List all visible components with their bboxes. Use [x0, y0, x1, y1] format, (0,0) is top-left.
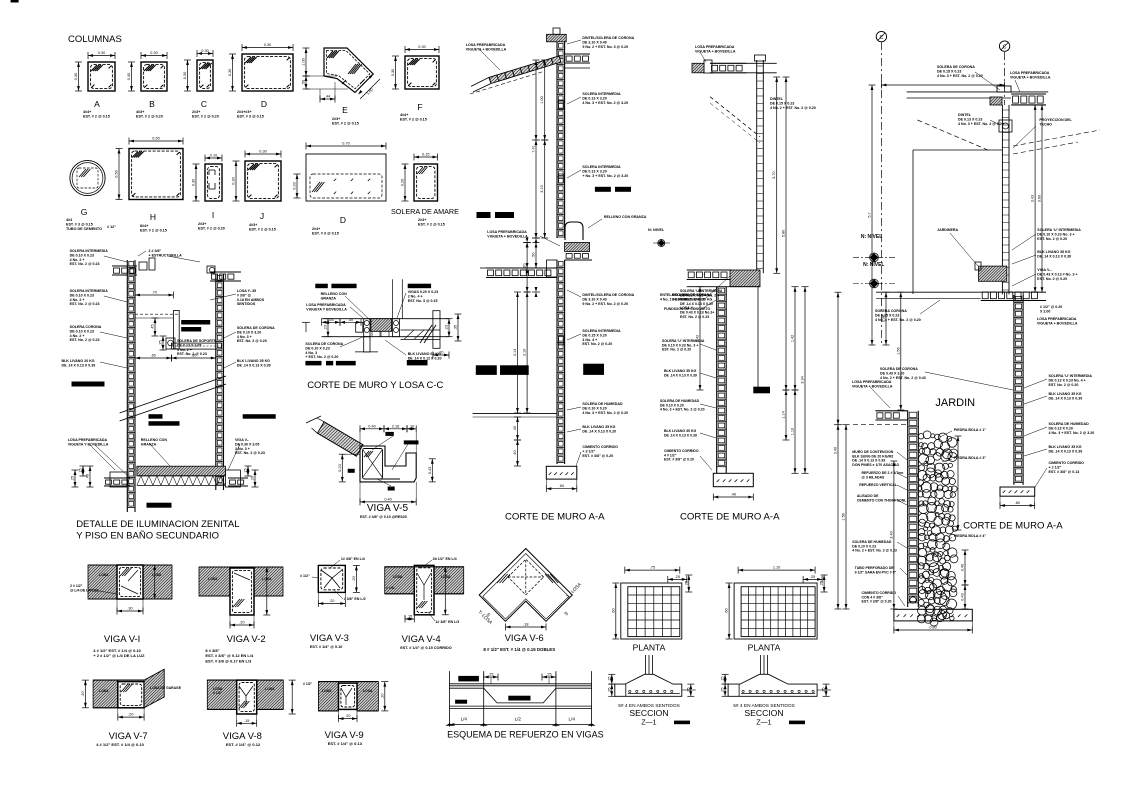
- svg-text:# 3/8" @: # 3/8" @: [237, 293, 252, 297]
- svg-text:D: D: [261, 99, 267, 109]
- wall3 dintel detail: [999, 120, 1012, 132]
- wall3 proyeccion dashed lines: [1013, 130, 1100, 146]
- svg-text:PIEDRA BOLA # 3": PIEDRA BOLA # 3": [954, 456, 986, 460]
- svg-text:JARDINERA: JARDINERA: [937, 228, 958, 232]
- svg-text:EST. No. 2 @ 0.20: EST. No. 2 @ 0.20: [582, 342, 612, 346]
- svg-text:DE 0.13 X 3.20: DE 0.13 X 3.20: [582, 169, 606, 173]
- wall1 mid floor bovedilla: [565, 259, 592, 261]
- svg-text:.25: .25: [71, 476, 75, 481]
- svg-text:+ No. 3 + EST. No. 2 @ 3.20: + No. 3 + EST. No. 2 @ 3.20: [582, 174, 628, 178]
- svg-text:DE 0.15 X 0.23: DE 0.15 X 0.23: [770, 101, 794, 105]
- detalle iluminacion right wall top cap: [210, 271, 241, 273]
- svg-text:DE .14 X 0.13 X 0.39: DE .14 X 0.13 X 0.39: [237, 363, 271, 367]
- wall3 jardin floor bovedilla: [875, 410, 908, 412]
- wall3 nivel datum 2: [870, 279, 879, 288]
- svg-text:# 1/2": # 1/2": [213, 691, 223, 695]
- svg-text:0.30: 0.30: [127, 73, 131, 80]
- detalle iluminacion inner beam marks: [166, 338, 175, 349]
- svg-text:.15: .15: [407, 615, 412, 619]
- wall3 open rect outline: [913, 149, 1002, 151]
- svg-text:.20: .20: [352, 576, 356, 581]
- svg-text:DINTEL: DINTEL: [958, 113, 972, 117]
- footing escala bar: [674, 721, 690, 725]
- svg-text:DE 3.10 X 0.43: DE 3.10 X 0.43: [582, 297, 606, 301]
- wall3 right footing dim: [1000, 505, 1035, 507]
- footing seccion rebar dots: [629, 690, 631, 692]
- svg-text:PLANTA: PLANTA: [633, 643, 666, 653]
- svg-text:EST. No. 2 @ 0.23: EST. No. 2 @ 0.23: [70, 302, 100, 306]
- svg-text:.10: .10: [409, 424, 414, 428]
- viga v-6 lower edge dims: [479, 595, 505, 621]
- svg-text:EST. # 3/8" @ 0.20: EST. # 3/8" @ 0.20: [664, 458, 694, 462]
- column C left dimension: [187, 60, 189, 91]
- svg-text:0.40: 0.40: [961, 564, 965, 571]
- svg-text:LOSA PREFABRICADA: LOSA PREFABRICADA: [695, 45, 735, 49]
- svg-text:RELLENO CON GRANZA: RELLENO CON GRANZA: [604, 215, 647, 219]
- svg-text:4#3+: 4#3+: [249, 223, 257, 227]
- column A left dimension: [78, 62, 80, 91]
- wall2 upper thin wall: [756, 60, 758, 273]
- svg-text:8#4+: 8#4+: [140, 224, 148, 228]
- wall3 mid slab bovedilla: [981, 300, 1046, 302]
- svg-text:LOSA: LOSA: [208, 577, 218, 581]
- svg-text:.40: .40: [513, 426, 517, 431]
- svg-text:0.30: 0.30: [183, 72, 187, 79]
- svg-text:0.30: 0.30: [98, 51, 105, 55]
- svg-text:EST. # 2 @ 0.15: EST. # 2 @ 0.15: [140, 229, 167, 233]
- svg-text:3.60: 3.60: [1038, 195, 1042, 202]
- svg-text:1.00: 1.00: [540, 96, 544, 103]
- svg-text:EST. No. 2 @ 0.23: EST. No. 2 @ 0.23: [70, 338, 100, 342]
- svg-text:B: B: [149, 99, 155, 109]
- svg-text:DE .14 X 0.12 X 0.20: DE .14 X 0.12 X 0.20: [408, 356, 442, 360]
- svg-text:VIGUETA + BOVEDILLA: VIGUETA + BOVEDILLA: [466, 47, 507, 51]
- svg-text:2#4+#3+: 2#4+#3+: [237, 110, 252, 114]
- svg-text:1.10: 1.10: [791, 428, 795, 435]
- wall3 datum circle C right: [999, 41, 1009, 51]
- wall2 left dim: [699, 287, 701, 390]
- svg-text:3.34: 3.34: [801, 376, 805, 383]
- svg-text:SOLERA INTERMEDIA: SOLERA INTERMEDIA: [70, 249, 109, 253]
- svg-text:VIGA V-8: VIGA V-8: [223, 731, 262, 742]
- wall3 top slab: [907, 91, 1049, 93]
- column D section: [242, 54, 293, 91]
- svg-text:.30: .30: [127, 607, 132, 611]
- wall1 black bars lower: [476, 365, 497, 375]
- svg-text:VIGUETA + BOVEDILLA: VIGUETA + BOVEDILLA: [852, 384, 893, 388]
- svg-text:DE .14 X 0.13 X 0.39: DE .14 X 0.13 X 0.39: [1037, 254, 1071, 258]
- viga v-6 diamond section: [479, 549, 572, 622]
- svg-text:1.42: 1.42: [791, 335, 795, 342]
- svg-text:.45: .45: [151, 324, 155, 329]
- svg-text:LOSA PREFABRICADA: LOSA PREFABRICADA: [466, 43, 506, 47]
- svg-text:0.20: 0.20: [293, 182, 297, 189]
- column D wide solera section: [306, 154, 386, 201]
- corte losa c-c slab band: [322, 318, 450, 320]
- wall2 top cap: [755, 55, 766, 61]
- wall3 top wall cap: [997, 86, 1011, 92]
- wall2 footing: [713, 473, 753, 486]
- svg-text:DE 0.10 X 3.20: DE 0.10 X 3.20: [237, 330, 261, 334]
- svg-text:PIEDRA BOLA # 4": PIEDRA BOLA # 4": [954, 534, 986, 538]
- svg-text:4 No. 2 + EST. No. 2 @ 0.23: 4 No. 2 + EST. No. 2 @ 0.23: [852, 549, 897, 553]
- svg-text:BLK LIVANO 60 KG: BLK LIVANO 60 KG: [408, 352, 441, 356]
- footing planta left dim: [728, 583, 730, 639]
- svg-text:N: NIVEL: N: NIVEL: [648, 228, 665, 232]
- svg-text:DE .14 X 0.13 X 0.39: DE .14 X 0.13 X 0.39: [664, 373, 697, 377]
- svg-text:CORTE DE MURO A-A: CORTE DE MURO A-A: [505, 512, 605, 523]
- svg-text:EST. # 3/8" @ 0.10 @RES25: EST. # 3/8" @ 0.10 @RES25: [360, 515, 407, 519]
- svg-text:1# 3/8" EN L/4: 1# 3/8" EN L/4: [341, 557, 365, 561]
- svg-text:.60: .60: [611, 608, 615, 613]
- viga v-9 dims: [339, 718, 358, 720]
- svg-text:4 No. 2 +: 4 No. 2 +: [70, 298, 85, 302]
- svg-text:GRANZA: GRANZA: [141, 442, 157, 446]
- svg-text:EST. No. 2 @ 0.20: EST. No. 2 @ 0.20: [662, 348, 691, 352]
- svg-text:# 12": # 12": [107, 225, 116, 229]
- wall3 mid slab lines: [876, 291, 1046, 293]
- wall3 left retaining wall: [907, 411, 909, 607]
- wall3 dim chain left: [837, 292, 839, 609]
- footing seccion right dim: [690, 684, 692, 696]
- wall1 top cap hatch: [547, 34, 567, 42]
- corte losa c-c left small beam: [356, 322, 363, 332]
- svg-text:2 No. 4 +: 2 No. 4 +: [408, 294, 423, 298]
- svg-text:EST. # 1/4" @ 0.15 CORRIDO: EST. # 1/4" @ 0.15 CORRIDO: [400, 646, 452, 650]
- svg-text:SOLERA DE CORONA: SOLERA DE CORONA: [880, 367, 918, 371]
- svg-text:DE 0.10 X 0.23: DE 0.10 X 0.23: [70, 329, 94, 333]
- svg-text:VIGA V-.: VIGA V-.: [235, 438, 249, 442]
- column A section: [88, 62, 115, 91]
- corte losa c-c right post: [393, 319, 400, 337]
- svg-text:LOSA Y-.35: LOSA Y-.35: [237, 289, 256, 293]
- svg-text:N: NIVEL: N: NIVEL: [863, 262, 884, 268]
- footing seccion left dims: [611, 674, 613, 684]
- svg-text:4 No. 2 + EST. No. 2 @ 0.20: 4 No. 2 + EST. No. 2 @ 0.20: [660, 297, 705, 301]
- svg-text:SOLERA 'U' INTERMEDIA: SOLERA 'U' INTERMEDIA: [1049, 374, 1093, 378]
- svg-text:.15: .15: [721, 677, 725, 682]
- detalle iluminacion diagonal shaft line A: [120, 376, 226, 413]
- svg-text:.75: .75: [650, 566, 655, 570]
- svg-text:4 No. 4 +: 4 No. 4 +: [582, 338, 597, 342]
- svg-text:4 # 1/2" EST. # 1/4 @ 0.10: 4 # 1/2" EST. # 1/4 @ 0.10: [96, 742, 144, 747]
- detalle iluminacion diagonal shaft line B: [120, 384, 226, 421]
- column A top dimension: [88, 55, 115, 57]
- svg-text:DE 0.10 X 0.23: DE 0.10 X 0.23: [70, 253, 94, 257]
- svg-text:DE 0.15 X 0.20: DE 0.15 X 0.20: [582, 333, 606, 337]
- svg-text:L/2: L/2: [515, 717, 522, 722]
- black bar note skylight: [181, 320, 210, 325]
- svg-text:BLK LIVANO 35 KG: BLK LIVANO 35 KG: [582, 425, 615, 429]
- svg-text:LOSA: LOSA: [441, 575, 451, 579]
- svg-text:LOSA: LOSA: [99, 573, 109, 577]
- svg-text:G: G: [81, 207, 88, 217]
- black bar note bottom: [147, 503, 172, 508]
- column H dimensions: [129, 140, 183, 142]
- viga v-2 right dim: [266, 567, 268, 615]
- svg-text:COLUMNAS: COLUMNAS: [68, 34, 122, 45]
- svg-text:.40: .40: [86, 474, 90, 479]
- svg-text:SECCION: SECCION: [629, 708, 668, 718]
- wall3 right footing: [1000, 487, 1035, 496]
- svg-text:.20: .20: [251, 476, 255, 481]
- svg-text:1# 3/8" EN L/3: 1# 3/8" EN L/3: [435, 620, 459, 624]
- svg-text:SOLERA INTERMEDIA: SOLERA INTERMEDIA: [582, 92, 621, 96]
- svg-text:PROYECCION DEL: PROYECCION DEL: [1039, 118, 1072, 122]
- viga v-5 black bars: [385, 432, 393, 436]
- svg-text:SOLERA INTERMEDIA: SOLERA INTERMEDIA: [582, 165, 621, 169]
- svg-text:SOLERA 'U' INTERMEDIA: SOLERA 'U' INTERMEDIA: [1037, 228, 1081, 232]
- viga v-5 bottom dim: [360, 501, 416, 503]
- svg-text:VIGA V-5: VIGA V-5: [367, 503, 409, 514]
- svg-text:5.7: 5.7: [868, 212, 872, 217]
- svg-text:2#4+: 2#4+: [312, 227, 320, 231]
- svg-text:DE 0.10 X 0.20: DE 0.10 X 0.20: [582, 406, 606, 410]
- svg-text:DE 0.13 X 3.05: DE 0.13 X 3.05: [177, 343, 201, 347]
- svg-text:DE 0.13 X 0.23: DE 0.13 X 0.23: [958, 117, 982, 121]
- svg-text:VIGUETA Y BOVEDILLA: VIGUETA Y BOVEDILLA: [68, 442, 109, 446]
- corte losa c-c right end post: [433, 311, 440, 349]
- viga v-8 slab and section: [207, 680, 236, 709]
- svg-text:4 No. 3: 4 No. 3: [305, 351, 317, 355]
- wall3 leader lines left: [897, 452, 907, 460]
- svg-text:.20: .20: [345, 714, 350, 718]
- svg-text:# 1/2": # 1/2": [300, 574, 310, 578]
- svg-text:EST. # 3/8" @ 0.20: EST. # 3/8" @ 0.20: [862, 600, 892, 604]
- viga v-5 right dim: [431, 459, 433, 482]
- column C top dimension: [197, 53, 213, 55]
- svg-text:Z—1: Z—1: [756, 720, 771, 727]
- esquema bottom bars: [450, 705, 592, 707]
- svg-text:4#4+: 4#4+: [400, 113, 408, 117]
- svg-text:DE 0.15 X 0.23: DE 0.15 X 0.23: [937, 69, 961, 73]
- wall3 bottom footing dim: [894, 629, 972, 631]
- column B section: [141, 62, 167, 91]
- svg-text:9 No. 2 + EST. No. 3 @ 0.20: 9 No. 2 + EST. No. 3 @ 0.20: [582, 45, 628, 49]
- svg-text:C: C: [880, 35, 884, 41]
- viga v-5 top dims: [360, 428, 384, 430]
- svg-text:4#4+: 4#4+: [83, 110, 91, 114]
- column B left dimension: [131, 62, 133, 91]
- svg-text:H: H: [150, 212, 156, 222]
- wall1 lower block wall: [556, 260, 558, 464]
- detalle iluminacion left wall top cap: [112, 265, 137, 267]
- column J dimensions: [245, 153, 281, 155]
- viga v-3 section: [318, 565, 345, 592]
- svg-text:I: I: [212, 210, 214, 220]
- detalle iluminacion skylight frame: [174, 310, 180, 348]
- svg-text:.25: .25: [675, 575, 680, 579]
- svg-text:EST. No. 2 @ 0.20: EST. No. 2 @ 0.20: [1049, 383, 1079, 387]
- corte losa c-c black bars bottom: [305, 361, 321, 366]
- svg-text:CEMENTO CON THOMPSONL: CEMENTO CON THOMPSONL: [857, 498, 907, 502]
- svg-text:DE .14 X 0.13 X 0.39: DE .14 X 0.13 X 0.39: [62, 363, 96, 367]
- svg-text:SOLERA INTERMEDIA: SOLERA INTERMEDIA: [70, 289, 109, 293]
- solera de amarre dimensions: [414, 156, 438, 158]
- svg-text:VIGAS 0.20 X 0.23: VIGAS 0.20 X 0.23: [408, 290, 439, 294]
- svg-text:# 3/8" EN L/2: # 3/8" EN L/2: [344, 597, 366, 601]
- wall2 footing dim: [713, 496, 753, 498]
- svg-text:BLK LIVANO 35 KG: BLK LIVANO 35 KG: [237, 359, 270, 363]
- svg-text:EST. # 2 @ 0.15: EST. # 2 @ 0.15: [400, 118, 427, 122]
- svg-text:TECHO: TECHO: [1039, 122, 1052, 126]
- svg-text:0.30: 0.30: [192, 179, 196, 186]
- footing escala bar: [789, 721, 805, 725]
- svg-text:DE .14 X 0.13 X 0.39: DE .14 X 0.13 X 0.39: [1049, 396, 1083, 400]
- svg-text:4 No. 2 +: 4 No. 2 +: [177, 348, 192, 352]
- svg-text:0.30: 0.30: [228, 69, 232, 76]
- svg-text:DE 0.10 X 0.23 No. 3 +: DE 0.10 X 0.23 No. 3 +: [1037, 232, 1074, 236]
- esquema bottom dim line: [450, 724, 592, 726]
- column I dimensions: [205, 157, 222, 159]
- svg-text:ESQUEMA DE REFUERZO EN VIGAS: ESQUEMA DE REFUERZO EN VIGAS: [447, 730, 604, 740]
- svg-text:EST. # 1/4" @ 0.13: EST. # 1/4" @ 0.13: [328, 741, 363, 746]
- svg-text:.25: .25: [159, 340, 163, 345]
- svg-text:DON PINES e 1/70 ASACIAO: DON PINES e 1/70 ASACIAO: [852, 463, 899, 467]
- wall3 datum line right: [1004, 52, 1006, 105]
- svg-text:LOSA DE GARAGE: LOSA DE GARAGE: [150, 686, 182, 690]
- wall2 dashed diagonal: [710, 97, 760, 137]
- svg-text:1.14: 1.14: [782, 411, 786, 418]
- viga v-5 inner rebar box: [363, 449, 383, 480]
- svg-text:0.43: 0.43: [428, 467, 432, 474]
- svg-text:Z—1: Z—1: [641, 720, 656, 727]
- wall3 jardinera hatch box: [979, 266, 1007, 281]
- svg-text:EST. # 2 @ 0.15: EST. # 2 @ 0.15: [249, 228, 276, 232]
- svg-text:DE 0.15 X 0.23: DE 0.15 X 0.23: [875, 313, 899, 317]
- svg-text:2#3+: 2#3+: [332, 117, 340, 121]
- svg-text:.60: .60: [725, 608, 729, 613]
- svg-text:0.18 EN AMBOS: 0.18 EN AMBOS: [237, 298, 265, 302]
- svg-text:.25: .25: [721, 688, 725, 693]
- wall3 pvc pipe: [910, 597, 916, 603]
- viga v-1 bottom dim: [117, 610, 143, 612]
- viga v-8 dims: [237, 722, 257, 724]
- svg-text:0.43: 0.43: [961, 593, 965, 600]
- svg-text:9 No. 2 + EST. No. 2 @ 0.20: 9 No. 2 + EST. No. 2 @ 0.20: [582, 302, 628, 306]
- svg-text:Y PISO EN BAÑO SECUNDARIO: Y PISO EN BAÑO SECUNDARIO: [76, 531, 219, 542]
- svg-text:9 1/2" SARA EN PVC # 5": 9 1/2" SARA EN PVC # 5": [855, 570, 897, 574]
- detalle iluminacion right wall: [215, 274, 217, 490]
- wall1 sloped roof band: [489, 56, 561, 84]
- svg-text:.20: .20: [239, 621, 244, 625]
- svg-text:.18: .18: [523, 623, 528, 627]
- svg-text:4 No. 3 + EST. No. 2 @ 3.20: 4 No. 3 + EST. No. 2 @ 3.20: [1049, 431, 1095, 435]
- svg-text:CIMIENTO CORRIDO: CIMIENTO CORRIDO: [582, 445, 618, 449]
- solera de amarre section: [414, 164, 438, 201]
- svg-text:0.15: 0.15: [422, 153, 429, 157]
- svg-text:LOSA PREFABRICADA: LOSA PREFABRICADA: [68, 438, 108, 442]
- svg-text:.20: .20: [329, 599, 334, 603]
- svg-text:LOSA PREFABRICADA: LOSA PREFABRICADA: [1010, 71, 1050, 75]
- svg-text:PIEDRA BOLA # 1": PIEDRA BOLA # 1": [954, 428, 986, 432]
- svg-text:C: C: [201, 99, 207, 109]
- svg-text:JARDIN: JARDIN: [935, 397, 975, 409]
- svg-text:0.50: 0.50: [115, 170, 119, 177]
- svg-text:SOLERA DE CORONA: SOLERA DE CORONA: [937, 65, 975, 69]
- svg-text:.15: .15: [244, 719, 249, 723]
- svg-text:.25: .25: [810, 575, 815, 579]
- svg-text:EST. No. 2 @ 0.23: EST. No. 2 @ 0.23: [237, 339, 267, 343]
- svg-text:DE 0.13 X 0.20: DE 0.13 X 0.20: [1049, 426, 1073, 430]
- svg-text:0.40: 0.40: [384, 497, 391, 501]
- column F section: [405, 56, 439, 89]
- viga v-7 slab and section: [93, 680, 118, 708]
- svg-text:E: E: [342, 105, 348, 115]
- svg-text:SOLERA DE AMARE: SOLERA DE AMARE: [391, 207, 459, 216]
- wall2 mid floor bovedilla: [687, 269, 730, 271]
- svg-text:EST. No. 2 @ 0.23: EST. No. 2 @ 0.23: [177, 352, 207, 356]
- svg-text:SECCION: SECCION: [744, 708, 783, 718]
- wall3 datum circle C left: [876, 31, 886, 41]
- footing planta top dim: [738, 569, 815, 571]
- svg-text:+ 3 1/2": + 3 1/2": [582, 449, 595, 453]
- column D top dimension: [242, 47, 293, 49]
- svg-text:4 No. 3 + EST. No. 2 @ 0.20: 4 No. 3 + EST. No. 2 @ 0.20: [582, 411, 628, 415]
- svg-text:EST. # 3 @ 0.15: EST. # 3 @ 0.15: [237, 115, 264, 119]
- wall1 relleno step profile: [565, 222, 583, 240]
- wall1 main block wall: [556, 42, 558, 238]
- wall3 boulder big stones bottom: [926, 554, 939, 567]
- column I section: [205, 164, 222, 201]
- wall3 upper wall: [1001, 105, 1003, 295]
- svg-text:SOLERA INTERMEDIA: SOLERA INTERMEDIA: [582, 329, 621, 333]
- svg-text:C: C: [1003, 45, 1007, 51]
- svg-text:DINTEL/SOLERA DE CORONA: DINTEL/SOLERA DE CORONA: [582, 36, 634, 40]
- detalle iluminacion floor left support: [110, 472, 127, 487]
- svg-text:.40: .40: [348, 318, 353, 322]
- footing planta corner dims: [668, 578, 687, 580]
- viga v-4 slab and section: [385, 567, 415, 594]
- svg-text:LOSA: LOSA: [99, 689, 109, 693]
- footing planta outer: [734, 583, 817, 639]
- svg-text:DE 0.13 X 0.23 No. 4 +: DE 0.13 X 0.23 No. 4 +: [1049, 378, 1086, 382]
- svg-text:EST. # 2 @ 0.20: EST. # 2 @ 0.20: [192, 115, 219, 119]
- column F top dimension: [405, 49, 439, 51]
- svg-text:4 No. 3 +: 4 No. 3 +: [237, 335, 252, 339]
- svg-text:VIGA V-6: VIGA V-6: [505, 633, 544, 644]
- svg-text:0.10: 0.10: [210, 154, 217, 158]
- svg-text:0.70: 0.70: [342, 142, 349, 146]
- svg-text:TUBO DE CEMENTO: TUBO DE CEMENTO: [66, 227, 102, 231]
- svg-text:1.56: 1.56: [842, 513, 846, 520]
- column C section: [197, 60, 213, 91]
- wall2 black bar: [753, 387, 770, 394]
- wall2 lower wall: [716, 287, 718, 474]
- wall2 top slab: [710, 62, 747, 64]
- footing planta outer: [621, 583, 682, 639]
- svg-text:.80: .80: [1015, 501, 1020, 505]
- svg-text:DE 0.10 X 0.23: DE 0.10 X 0.23: [70, 293, 94, 297]
- column G circular section: [70, 160, 105, 195]
- svg-text:BLK LIVANO 35 KG: BLK LIVANO 35 KG: [1049, 392, 1082, 396]
- svg-text:4 No. 3 + EST. No. 2 @ 0.20: 4 No. 3 + EST. No. 2 @ 0.20: [958, 122, 1004, 126]
- svg-text:1.20: 1.20: [523, 264, 527, 271]
- svg-text:4 No. 3 + EST. No. 2 @ 3.20: 4 No. 3 + EST. No. 2 @ 3.20: [582, 101, 628, 105]
- wall1 left floor support: [547, 260, 558, 277]
- svg-text:CIMIENTO CORRIDO: CIMIENTO CORRIDO: [1049, 461, 1085, 465]
- wall1 dim chains: [535, 140, 538, 145]
- viga v-2 slab and section: [199, 567, 230, 596]
- svg-text:SOLERA DE HUMEDAD: SOLERA DE HUMEDAD: [582, 402, 623, 406]
- svg-text:3.13: 3.13: [513, 349, 517, 356]
- viga v-7 garage slab parallelogram: [144, 669, 164, 708]
- svg-text:0.30: 0.30: [264, 43, 271, 47]
- column H section: [129, 149, 183, 200]
- svg-text:LOSA PREFABRICADA: LOSA PREFABRICADA: [1037, 317, 1077, 321]
- sheet corner mark: [11, 0, 19, 3]
- wall1 black bars mid left: [477, 212, 491, 218]
